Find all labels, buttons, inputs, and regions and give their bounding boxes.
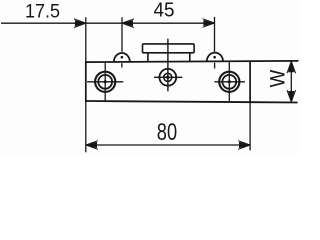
arrowhead 45 right pointing right	[203, 19, 215, 28]
extension line of left bump (x=122)	[121, 17, 123, 52]
right hole horizontal centreline	[214, 81, 245, 83]
arrowhead 80 right pointing right	[238, 141, 250, 150]
centre hole inner circle	[164, 73, 172, 81]
right hole vertical centreline	[228, 61, 230, 102]
right hole centre dot	[228, 80, 231, 83]
extension line of right bump (x=214.5)	[214, 17, 216, 52]
body left edge	[85, 61, 87, 102]
W dimension arrow line	[290, 62, 292, 103]
right bump centre dot	[213, 56, 216, 59]
left hole inner circle	[98, 75, 112, 89]
right bump arc	[207, 53, 223, 62]
right hole outer circle	[219, 72, 239, 92]
centre hole outer circle	[159, 69, 176, 86]
svg-text:W: W	[266, 70, 289, 88]
right hole inner circle	[222, 75, 236, 89]
left hole centre dot	[104, 80, 107, 83]
left hole horizontal centreline	[87, 81, 123, 83]
svg-text:45: 45	[154, 0, 175, 22]
svg-text:17.5: 17.5	[25, 0, 60, 22]
top dimension line	[1, 22, 214, 24]
left bump centreline dash below edge	[121, 63, 123, 67]
arrowhead 80 left pointing left	[86, 141, 98, 150]
tab top plate	[143, 44, 195, 53]
left bump centre dot	[121, 56, 124, 59]
right extension line of 80 dimension	[249, 101, 251, 150]
body top edge with right extension	[86, 61, 299, 62]
arrowhead 45 left pointing left	[122, 19, 134, 28]
extension line left (x=85.8, body left edge + extensions)	[85, 17, 87, 62]
left bump arc	[114, 53, 130, 62]
left hole outer circle	[95, 72, 115, 92]
body right edge	[249, 61, 251, 102]
body bottom edge with right extension	[86, 101, 298, 103]
tab stem right side	[189, 53, 191, 62]
tab / centre hole centreline	[167, 39, 169, 92]
left hole vertical centreline	[104, 62, 106, 101]
centre hole horizontal centreline	[154, 76, 182, 78]
right bump centreline dash below edge	[214, 63, 216, 69]
arrowhead at body left edge pointing right (17.5)	[74, 19, 86, 28]
W arrowhead up	[287, 61, 296, 73]
W arrowhead down	[287, 90, 296, 102]
tab stem left side	[147, 53, 149, 62]
svg-text:80: 80	[157, 119, 177, 146]
centre hole centre dot	[166, 76, 169, 79]
bottom dimension line 80	[86, 144, 250, 146]
